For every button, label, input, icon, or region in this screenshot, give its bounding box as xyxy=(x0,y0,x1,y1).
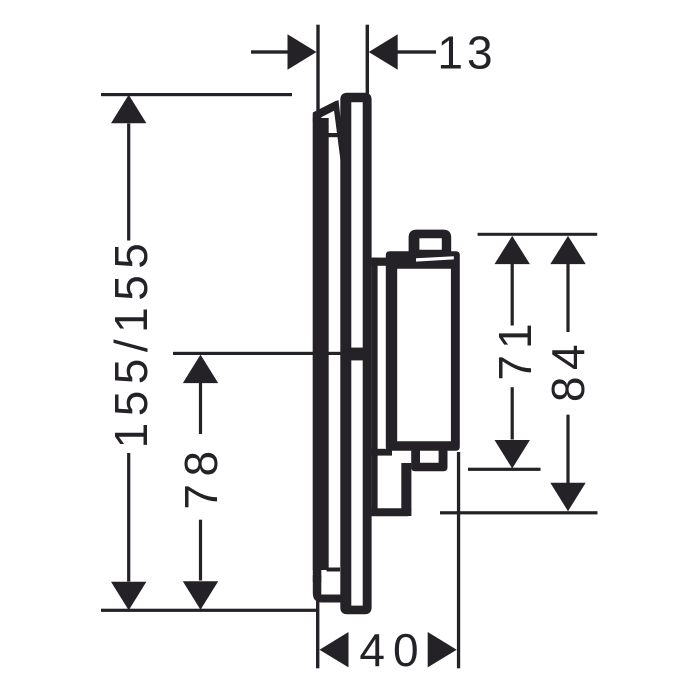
connector bar plate-to-cartridge xyxy=(372,258,390,266)
dim 40 right arrow xyxy=(428,632,457,667)
dim 155/155 line upper segment xyxy=(127,124,130,241)
dim 13 left extension line xyxy=(316,25,319,113)
dim 71 up arrow xyxy=(495,236,530,264)
dim 13 left leader xyxy=(251,50,289,53)
svg-text:155/155: 155/155 xyxy=(105,237,157,449)
lower L-bracket vertical xyxy=(401,463,411,516)
cartridge body with cap xyxy=(386,251,460,450)
back sleeve top seam xyxy=(327,133,341,137)
back sleeve left edge solid middle xyxy=(313,118,329,570)
dim 71 line lower segment xyxy=(511,387,514,439)
dim 13 left arrow xyxy=(288,34,317,69)
svg-text:13: 13 xyxy=(437,27,496,79)
dim 84 line upper segment xyxy=(566,264,569,332)
back sleeve left edge xyxy=(313,114,322,582)
bottom tab xyxy=(411,450,447,472)
svg-text:78: 78 xyxy=(175,443,227,509)
back sleeve top slanted edge xyxy=(313,101,337,122)
dim 78 line upper segment xyxy=(199,383,202,434)
dim 71 line upper segment xyxy=(511,264,514,326)
dim 78 down arrow xyxy=(183,581,218,610)
dim 13 right arrow xyxy=(369,34,398,69)
svg-text:71: 71 xyxy=(489,317,541,380)
bracket left wall xyxy=(372,258,378,516)
dim 78 line lower segment xyxy=(199,520,202,581)
dim 71 down arrow xyxy=(495,440,530,469)
dim right top extension line xyxy=(478,233,598,236)
dim 13 right leader xyxy=(398,50,437,53)
back sleeve fold slant line xyxy=(333,100,345,161)
back sleeve inner line xyxy=(321,118,328,570)
svg-text:84: 84 xyxy=(542,338,594,402)
dim 155/155 bottom extension line xyxy=(101,609,318,612)
dim 13 right extension line xyxy=(366,25,369,95)
front plate (rounded outline) xyxy=(340,93,371,615)
dim 71 bottom extension line xyxy=(468,468,541,471)
dim 155/155 top extension line xyxy=(101,93,292,96)
cap highlight sliver xyxy=(416,256,454,261)
knob / spindle xyxy=(409,230,452,253)
dim 155/155 up arrow xyxy=(111,95,146,124)
dim 78 up arrow xyxy=(183,355,218,384)
dim 78 inlet chunk xyxy=(350,348,365,361)
svg-text:40: 40 xyxy=(359,624,426,676)
dim 155/155 line lower segment xyxy=(127,453,130,582)
dim 40 left extension line xyxy=(316,592,319,668)
body bottom lip over slot xyxy=(372,449,392,456)
dim 84 up arrow xyxy=(550,236,585,264)
dim 155/155 down arrow xyxy=(111,582,146,611)
dim 40 left arrow xyxy=(320,632,349,667)
lower L-bracket foot xyxy=(372,508,412,516)
dim 78 mid extension line xyxy=(173,352,342,355)
dim 84 line lower segment xyxy=(566,415,569,484)
dim 84 down arrow xyxy=(550,483,585,512)
back sleeve bottom seam xyxy=(327,568,341,572)
back sleeve bottom edge xyxy=(313,575,348,603)
dim 40 right extension line xyxy=(457,452,460,668)
dim 84 bottom extension line xyxy=(440,511,598,514)
